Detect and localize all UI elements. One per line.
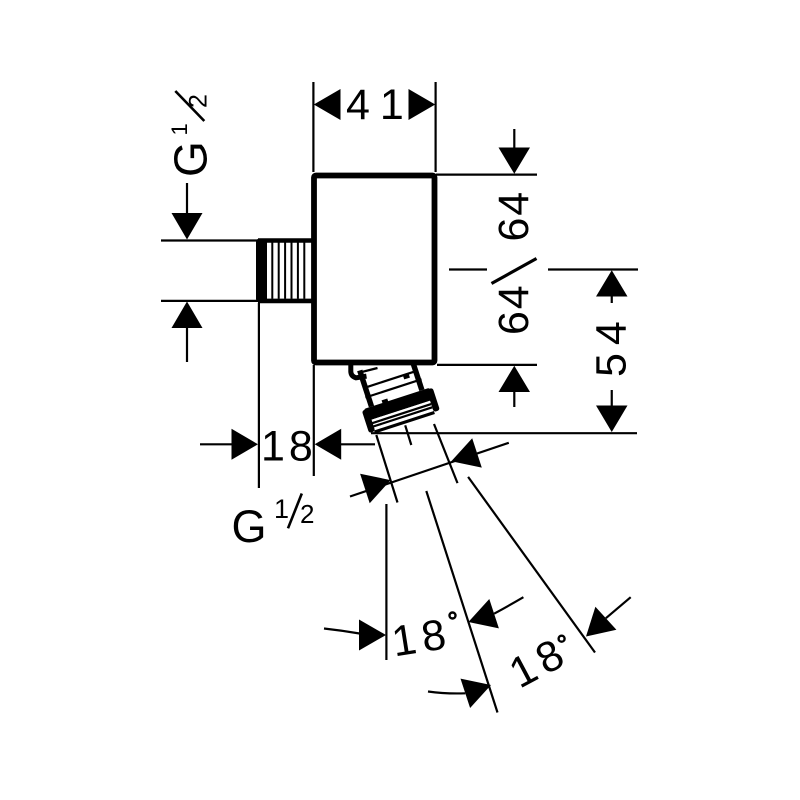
thread top edge [258, 238, 312, 243]
ext line outlet left edge [376, 435, 397, 503]
dimension G1/2 (top left) [161, 183, 258, 362]
arrow right [409, 89, 436, 120]
arrow up to bottom tick [499, 366, 531, 392]
dim tail left [200, 443, 232, 445]
thread left cap [256, 239, 267, 303]
arrow to axis line (left) [461, 679, 492, 708]
nozzle axis stub [405, 425, 411, 445]
arrow left [314, 89, 341, 120]
arrow down to bottom tick [596, 406, 628, 433]
nozzle neck right side [410, 354, 422, 390]
nozzle nut black block [364, 388, 433, 421]
svg-text:18: 18 [261, 423, 317, 471]
arrow to vertical line [359, 620, 386, 651]
ext line left [312, 82, 314, 172]
svg-text:G: G [232, 501, 267, 552]
tilted G1/2 dimension at nozzle [350, 424, 509, 503]
ext line right (body edge) [313, 365, 315, 476]
vertical reference line [385, 504, 387, 660]
line 36deg [468, 477, 595, 653]
tick top [161, 239, 258, 241]
nozzle flange right cap [426, 388, 439, 412]
arrow down [172, 213, 203, 240]
nozzle ring window [371, 401, 433, 431]
thread hatch lines [272, 243, 304, 299]
nozzle axis line 18deg [426, 491, 497, 713]
nozzle collar hook [351, 362, 367, 378]
svg-text:2: 2 [300, 499, 314, 529]
svg-text:54: 54 [588, 313, 636, 377]
ext line left (thread) [258, 303, 260, 488]
leader right [606, 597, 631, 618]
svg-text:1: 1 [274, 494, 289, 524]
angle dim 18deg first [324, 597, 523, 650]
dimension 41 (top) [313, 82, 435, 172]
svg-text:2: 2 [184, 94, 212, 108]
arrow left into right ext [315, 429, 342, 460]
arrow down-left to right ext [451, 438, 482, 467]
arrow to 36deg line [586, 607, 616, 637]
tilted dim line [350, 443, 509, 497]
bottom arrow stem [513, 392, 515, 407]
nozzle band tab left [382, 399, 389, 404]
thread bottom edge [258, 299, 312, 304]
svg-text:64: 64 [490, 190, 538, 241]
arrow up-right to left ext [360, 474, 391, 504]
nozzle group (rotated 18deg) [350, 351, 441, 436]
dim tail right [341, 443, 375, 445]
degree circle second 18 [559, 636, 565, 642]
dimension 64/64 (right) [436, 129, 537, 407]
nozzle neck left side [360, 370, 372, 406]
text G1/2 rotated [164, 91, 216, 177]
svg-text:41: 41 [346, 81, 414, 129]
nozzle bottom band [374, 411, 435, 434]
tick top (right of 64/64 text) [548, 268, 638, 270]
nozzle flange left cap [362, 409, 375, 433]
tick bottom [437, 364, 537, 366]
dim stem top [186, 183, 188, 215]
nozzle collar bottom dash [359, 368, 378, 373]
mid dash left [449, 268, 487, 270]
svg-text:G: G [164, 141, 216, 177]
nozzle neck bottom line [363, 371, 417, 389]
arrow down to top tick [499, 148, 531, 174]
angle fan lines [386, 477, 595, 713]
fraction slash of 64/64 [492, 259, 537, 284]
arrow to axis line (right) [468, 599, 499, 628]
bottom arrow stem [611, 390, 613, 406]
body outline [314, 176, 435, 363]
dimension 18 (bottom left) [200, 303, 375, 488]
dim stem bottom [186, 328, 188, 362]
leader right [494, 597, 523, 614]
arrow right into left ext [232, 429, 259, 460]
leader left [324, 629, 360, 634]
tick bottom (long line to flange) [371, 432, 637, 434]
angle dim 18deg second [428, 597, 631, 708]
nozzle ring line 2 [373, 407, 432, 426]
text G1/2 (bottom) [232, 494, 315, 553]
arrow up [172, 302, 203, 329]
nozzle collar second line [365, 379, 421, 397]
dimension 54 (right) [371, 270, 638, 434]
svg-text:18: 18 [389, 610, 456, 667]
tick bottom [161, 300, 258, 302]
ext line outlet right edge [434, 424, 458, 483]
nozzle ring line 1 [372, 404, 431, 423]
degree circle first 18 [450, 613, 456, 619]
nozzle band tab right [403, 374, 410, 379]
svg-text:1: 1 [167, 123, 192, 135]
top arrow stem [513, 129, 515, 150]
top arrow stem [611, 297, 613, 304]
ext line right [435, 82, 437, 172]
arrow up to top tick [596, 270, 628, 296]
thread connector [256, 239, 312, 303]
svg-text:64: 64 [490, 284, 538, 335]
tick top [436, 174, 537, 176]
leader left [428, 692, 465, 694]
